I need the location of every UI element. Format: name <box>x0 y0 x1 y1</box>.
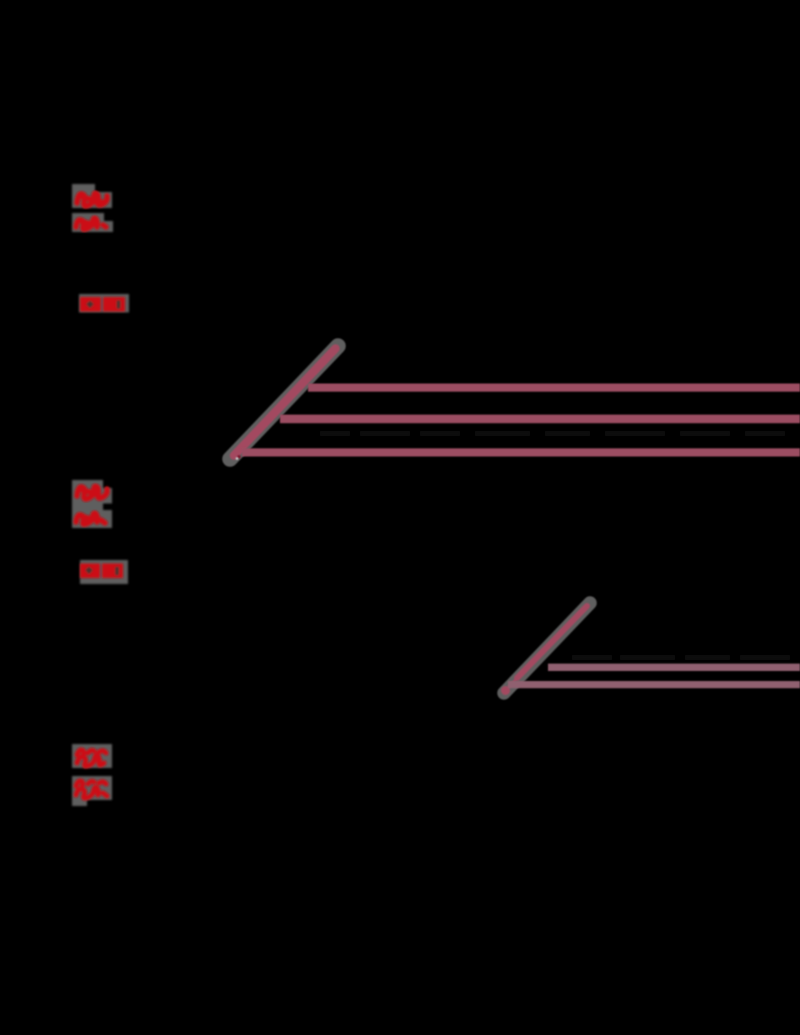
annotation note 2 red scribble line 1 <box>77 486 107 499</box>
annotation note 1 red scribble line 2 <box>76 218 106 229</box>
annotation note 3 red scribble line 2 <box>76 781 107 798</box>
annotation note 3 red scribble line 1 <box>77 750 106 766</box>
strikethrough line 3 <box>242 448 800 456</box>
annotation note 2 red scribble line 2 <box>76 513 105 524</box>
faint text remnants under line 2 <box>320 431 785 436</box>
strikethrough line 4 <box>548 664 800 671</box>
strikethrough line 2 <box>280 415 800 424</box>
diagonal stroke 1 tip dots <box>237 455 240 458</box>
annotation note 2 halo <box>72 480 112 528</box>
red stamp 2 halo <box>80 560 128 584</box>
strikethrough line 1 <box>308 384 800 392</box>
diagonal stroke 1 halo <box>230 346 338 459</box>
annotation note 1 red scribble line 1 <box>77 193 107 206</box>
diagonal stroke 1 <box>234 349 336 456</box>
strikethrough line 5 <box>508 681 800 688</box>
red stamp 1 halo <box>79 294 129 313</box>
annotation note 1 halo <box>72 184 113 232</box>
red stamp 2 blocks <box>80 564 123 579</box>
red stamp 1 blocks <box>80 297 125 312</box>
diagonal stroke 2 halo <box>504 603 590 693</box>
diagonal stroke 2 <box>501 606 587 695</box>
annotation note 3 halo <box>72 744 112 806</box>
faint text remnants above line 4 <box>572 655 790 660</box>
